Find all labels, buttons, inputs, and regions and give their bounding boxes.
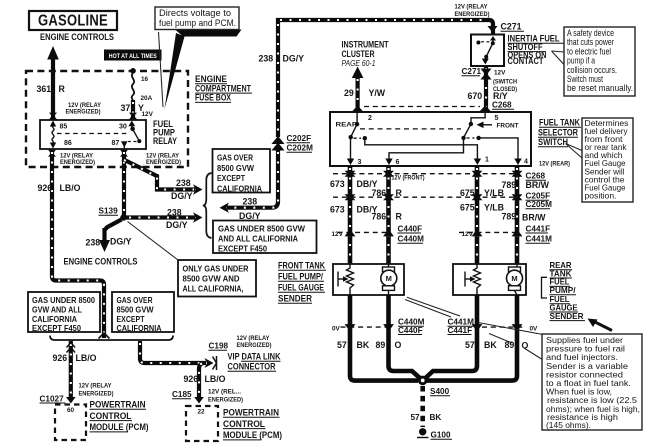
svg-text:C202M: C202M — [287, 144, 314, 153]
callout: Directs voltage to fuel pump and PCM — [175, 30, 242, 37]
svg-text:GAS OVER: GAS OVER — [217, 154, 253, 163]
wire corner into inertia switch — [489, 20, 493, 35]
svg-text:238: 238 — [259, 54, 274, 64]
svg-text:R: R — [396, 188, 403, 198]
wires below rear box to junction — [424, 295, 477, 380]
svg-text:CALIFORNIA: CALIFORNIA — [117, 324, 162, 333]
svg-text:Y/W: Y/W — [369, 88, 386, 98]
svg-text:926: 926 — [38, 183, 53, 193]
svg-text:DG/Y: DG/Y — [171, 191, 193, 201]
svg-text:675: 675 — [460, 203, 475, 213]
svg-text:ENGINE CONTROLS: ENGINE CONTROLS — [40, 32, 114, 42]
callout: Supplies fuel under pressure ... — [478, 323, 543, 360]
svg-text:GAS UNDER 8500: GAS UNDER 8500 — [32, 296, 95, 305]
wire branch diagonal to right 238 DG/Y — [123, 159, 196, 190]
svg-text:PUMP/: PUMP/ — [550, 286, 577, 295]
svg-text:GASOLINE: GASOLINE — [38, 13, 108, 30]
svg-text:CALIFORNIA: CALIFORNIA — [217, 184, 262, 193]
svg-text:238: 238 — [167, 207, 182, 217]
svg-text:G100: G100 — [431, 431, 451, 440]
svg-text:FRONT TANK: FRONT TANK — [278, 261, 326, 271]
svg-text:O: O — [395, 340, 402, 350]
svg-text:ENERGIZED): ENERGIZED) — [455, 11, 490, 18]
0V connector line (dashed) — [341, 326, 524, 328]
wire 926 LB/O down to C185 — [199, 363, 203, 399]
svg-text:C185: C185 — [172, 390, 192, 399]
wires below front box to junction — [350, 295, 418, 381]
svg-text:LB/O: LB/O — [205, 374, 226, 384]
inertia switch internals — [490, 36, 496, 41]
wire 675 Y/LB (pin1) — [475, 166, 480, 264]
svg-text:8500 GVW: 8500 GVW — [117, 306, 154, 315]
front tank fuel pump/sender box — [333, 264, 404, 295]
relay coil — [52, 124, 54, 145]
svg-text:37: 37 — [121, 103, 131, 113]
svg-text:57: 57 — [411, 413, 421, 422]
ground G100 — [419, 428, 426, 435]
svg-text:(145 ohms).: (145 ohms). — [546, 420, 591, 430]
curly brace grouping option boxes — [203, 173, 212, 238]
svg-text:SENDER: SENDER — [278, 294, 313, 304]
svg-text:12V (REL...: 12V (REL... — [208, 389, 241, 396]
wire 238 DG/Y from relay pin 87 down to S139 — [122, 150, 126, 216]
svg-text:LB/O: LB/O — [76, 353, 97, 363]
svg-text:R/Y: R/Y — [493, 91, 508, 101]
svg-text:ENERGIZED): ENERGIZED) — [237, 342, 272, 349]
box GAS UNDER 8500 GVW AND ALL CALIFORNIA EXCEPT F450 (middle) — [213, 221, 317, 254]
svg-text:R: R — [59, 84, 66, 94]
svg-text:12V: 12V — [142, 111, 154, 118]
svg-text:12V (RELAY: 12V (RELAY — [79, 383, 113, 390]
svg-text:57: 57 — [337, 340, 347, 350]
front sender variable resistor — [347, 264, 354, 295]
wire 37 Y — [131, 100, 135, 119]
svg-text:be reset manually.: be reset manually. — [567, 83, 633, 93]
svg-text:GAS OVER: GAS OVER — [117, 296, 153, 305]
connector line C268 (dashed) — [364, 106, 480, 108]
svg-text:ENERGIZED): ENERGIZED) — [66, 109, 101, 116]
wire 238 DG/Y below C202 turning left — [227, 148, 278, 208]
box GAS UNDER 8500 GVW AND ALL CALIFORNIA EXCEPT F450 (bottom left) — [28, 292, 100, 332]
svg-text:ONLY GAS UNDER: ONLY GAS UNDER — [183, 265, 249, 274]
engine compartment fuse box (dashed) — [26, 71, 188, 167]
svg-text:CALIFORNIA: CALIFORNIA — [32, 315, 77, 324]
splice junction S400 — [418, 376, 428, 386]
svg-text:AND ALL CALIFORNIA: AND ALL CALIFORNIA — [218, 235, 298, 244]
svg-text:FUEL GAUGE: FUEL GAUGE — [278, 283, 324, 293]
svg-text:89: 89 — [376, 340, 386, 350]
svg-text:C440F: C440F — [398, 326, 423, 335]
svg-text:361: 361 — [37, 84, 52, 94]
svg-text:C441F: C441F — [526, 224, 551, 233]
connector line C440/C441 (dashed segments) — [338, 231, 517, 233]
svg-text:C268: C268 — [492, 101, 512, 110]
contact dash to pin1 path — [354, 137, 362, 139]
wire from bus to VIP data link connector — [140, 341, 206, 363]
svg-text:926: 926 — [53, 353, 68, 363]
wire 786 R (pin6) — [386, 166, 391, 264]
svg-text:2: 2 — [368, 115, 372, 122]
svg-text:926: 926 — [184, 374, 199, 384]
rear tank fuel pump/sender box — [453, 264, 526, 295]
svg-text:RELAY: RELAY — [153, 136, 177, 147]
svg-text:C1027: C1027 — [40, 395, 65, 404]
svg-text:DG/Y: DG/Y — [110, 237, 132, 247]
svg-text:8500 GVW AND: 8500 GVW AND — [183, 275, 240, 284]
connector bowties on wires — [345, 171, 523, 237]
svg-text:8500 GVW: 8500 GVW — [217, 164, 254, 173]
svg-text:238: 238 — [86, 238, 101, 248]
connector line C205 (dashed) — [333, 196, 516, 198]
label HOT AT ALL TIMES — [104, 50, 162, 61]
svg-text:BR/W: BR/W — [522, 212, 546, 222]
svg-text:786: 786 — [372, 188, 387, 198]
wire 789 BR/W (pin4) — [515, 166, 520, 264]
connector C198 symbol — [205, 358, 214, 368]
svg-text:HOT AT ALL TIMES: HOT AT ALL TIMES — [109, 53, 157, 60]
svg-text:ENERGIZED): ENERGIZED) — [79, 391, 114, 398]
svg-text:C271: C271 — [462, 67, 482, 76]
svg-text:FUEL PUMP/: FUEL PUMP/ — [278, 272, 323, 282]
svg-text:5: 5 — [495, 115, 499, 122]
title box GASOLINE — [29, 11, 117, 30]
wire 926 LB/O from relay pin 86 down and over — [52, 150, 104, 338]
svg-text:S400: S400 — [430, 387, 450, 396]
connector C202F/C202M arrows — [272, 136, 285, 144]
gang dashed line — [360, 128, 461, 130]
connector C1027 PCM box (dashed) — [55, 405, 86, 441]
svg-text:M: M — [511, 274, 517, 283]
svg-text:CONTACT: CONTACT — [508, 56, 545, 66]
pointer line from ONLY GAS box to S139 — [128, 222, 179, 261]
box GAS OVER 8500 GVW EXCEPT CALIFORNIA (middle) — [213, 149, 271, 193]
svg-text:238: 238 — [176, 178, 191, 188]
svg-text:12V: 12V — [462, 231, 474, 238]
svg-text:BK: BK — [430, 413, 442, 422]
svg-text:30: 30 — [119, 124, 127, 131]
svg-text:C441F: C441F — [448, 326, 473, 335]
wire 670 R/Y inertia to selector — [484, 66, 488, 111]
pin3 drop — [350, 137, 352, 160]
svg-text:C441M: C441M — [526, 235, 553, 244]
connector C185 PCM box (dashed) — [186, 406, 218, 441]
front pump motor M — [388, 264, 390, 267]
arrow from supplies box to SENDER — [594, 322, 612, 331]
svg-text:C198: C198 — [209, 342, 229, 351]
svg-text:DG/Y: DG/Y — [239, 211, 261, 221]
svg-text:29: 29 — [344, 88, 354, 98]
wire 673 DB/Y (pin3) — [348, 166, 353, 264]
fuse 16 20A — [132, 73, 134, 101]
svg-text:22: 22 — [198, 409, 206, 416]
pin5 stub and blade — [471, 112, 485, 123]
svg-text:BK: BK — [357, 340, 370, 350]
svg-text:ENGINE CONTROLS: ENGINE CONTROLS — [64, 257, 138, 267]
svg-text:FUSE BOX: FUSE BOX — [195, 93, 231, 103]
svg-text:GVW AND ALL: GVW AND ALL — [32, 306, 82, 315]
pointer lines from C441 labels to front pump box — [405, 297, 460, 317]
callout: Determines fuel delivery ... — [566, 144, 583, 159]
wire 29 Y/W arrow up to cluster — [356, 76, 360, 112]
svg-text:673: 673 — [330, 204, 345, 214]
svg-text:fuel pump and PCM.: fuel pump and PCM. — [159, 18, 236, 28]
svg-text:(SWITCH: (SWITCH — [493, 79, 517, 86]
box ONLY GAS UNDER 8500 GVW AND ALL CALIFORNIA — [178, 260, 256, 297]
contact dash to pin4 path — [467, 137, 475, 139]
svg-text:789: 789 — [502, 212, 517, 222]
relay gang dashed link — [57, 133, 128, 135]
svg-text:4: 4 — [524, 159, 528, 166]
wire 361 R arrow up — [51, 58, 55, 120]
wire from S139 right 238 DG/Y — [126, 215, 195, 219]
svg-text:LB/O: LB/O — [60, 183, 81, 193]
svg-text:GAS UNDER 8500 GVW: GAS UNDER 8500 GVW — [218, 225, 305, 234]
svg-text:ENERGIZED): ENERGIZED) — [60, 159, 95, 166]
svg-text:12V (REAR): 12V (REAR) — [539, 161, 570, 168]
svg-text:REAR: REAR — [336, 122, 358, 129]
svg-text:238: 238 — [243, 196, 258, 206]
svg-text:12V (RELAY: 12V (RELAY — [237, 335, 271, 342]
node S139 — [120, 214, 126, 220]
selector internals: pin2 stub and blade — [356, 112, 358, 123]
svg-text:EXCEPT F450: EXCEPT F450 — [32, 324, 81, 333]
pin6 path — [389, 138, 464, 160]
svg-text:DG/Y: DG/Y — [283, 54, 305, 64]
bracket from rear box to labels — [542, 277, 548, 298]
connector marks at relay pins — [48, 113, 137, 157]
svg-text:position.: position. — [585, 190, 617, 200]
rear sender variable resistor — [474, 264, 481, 295]
svg-text:INSTRUMENT: INSTRUMENT — [342, 40, 390, 50]
svg-text:3: 3 — [358, 159, 362, 166]
svg-text:ENERGIZED): ENERGIZED) — [208, 397, 243, 404]
svg-text:12V: 12V — [494, 70, 506, 77]
wire 238 DG/Y top horizontal run — [276, 18, 491, 22]
svg-text:S139: S139 — [99, 207, 119, 216]
pin2/pin5 wire chevrons above box — [480, 106, 491, 112]
inertia fuel shutoff box — [471, 35, 504, 67]
svg-text:85: 85 — [60, 124, 68, 131]
svg-text:1: 1 — [485, 157, 489, 164]
svg-text:12V (RELAY: 12V (RELAY — [455, 4, 489, 11]
svg-text:12V: 12V — [332, 231, 344, 238]
svg-text:EXCEPT: EXCEPT — [117, 315, 145, 324]
svg-text:57: 57 — [465, 340, 475, 350]
svg-text:DG/Y: DG/Y — [166, 220, 188, 230]
svg-text:C440F: C440F — [398, 224, 423, 233]
svg-text:C205M: C205M — [526, 200, 553, 209]
svg-text:FRONT: FRONT — [497, 123, 519, 130]
svg-text:R: R — [396, 212, 403, 222]
wire 238 DG/Y vertical to C202 — [276, 18, 280, 137]
svg-text:670: 670 — [468, 91, 483, 101]
svg-text:87: 87 — [112, 140, 120, 147]
svg-text:C202F: C202F — [287, 134, 312, 143]
wire from S139 down arrow ENGINE CONTROLS 238 DG/Y — [105, 220, 122, 231]
svg-text:0V: 0V — [332, 326, 341, 333]
svg-text:PAGE 60-1: PAGE 60-1 — [342, 58, 376, 68]
svg-text:16: 16 — [141, 76, 149, 83]
svg-text:C440M: C440M — [398, 235, 425, 244]
callout: A safety device ... — [552, 51, 565, 65]
svg-text:ENERGIZED): ENERGIZED) — [146, 159, 181, 166]
svg-text:M: M — [386, 274, 392, 283]
svg-text:789: 789 — [502, 180, 517, 190]
svg-text:0V: 0V — [530, 326, 539, 333]
svg-text:12V (FRONT): 12V (FRONT) — [392, 175, 425, 182]
FRONT pointer arrow — [481, 124, 492, 126]
svg-text:673: 673 — [330, 179, 345, 189]
svg-text:BK: BK — [484, 340, 497, 350]
bus bracket under option boxes — [50, 336, 173, 341]
svg-text:86: 86 — [64, 140, 72, 147]
box GAS OVER 8500 GVW EXCEPT CALIFORNIA (bottom left) — [112, 292, 174, 332]
wire 57 BK to ground (dashed thick) — [420, 386, 425, 427]
fuel tank selector switch box — [330, 112, 531, 166]
relay switch (pin30 to 87) — [128, 121, 135, 127]
svg-text:ALL CALIFORNIA,: ALL CALIFORNIA, — [183, 285, 244, 294]
svg-text:675: 675 — [460, 188, 475, 198]
svg-text:60: 60 — [67, 407, 75, 414]
rear pump motor M — [516, 264, 518, 267]
svg-text:SENDER: SENDER — [550, 312, 584, 321]
connector line C268 below selector (dashed) — [333, 173, 516, 175]
node on fuse box top edge — [130, 68, 136, 74]
svg-text:6: 6 — [396, 159, 400, 166]
svg-text:C271: C271 — [501, 22, 522, 32]
fuel pump relay box — [40, 120, 146, 149]
svg-text:Directs voltage to: Directs voltage to — [159, 8, 231, 18]
svg-text:EXCEPT F450: EXCEPT F450 — [218, 245, 267, 254]
wire 926 LB/O down to C1027 — [69, 341, 73, 399]
svg-text:EXCEPT: EXCEPT — [217, 174, 245, 183]
svg-text:20A: 20A — [141, 95, 153, 102]
svg-text:BR/W: BR/W — [526, 180, 550, 190]
svg-text:786: 786 — [372, 212, 387, 222]
